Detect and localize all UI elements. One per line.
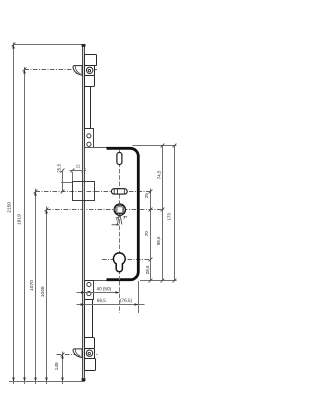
- dimension 66,5 (76,5): [77, 304, 145, 306]
- right extension line bottom: [140, 280, 177, 282]
- lower screw plate: [85, 281, 94, 300]
- dimension 2150 line: [13, 43, 15, 385]
- bottom lock lower box: [85, 359, 96, 371]
- bottom latch wedge: [73, 349, 82, 358]
- faceplate top extension line: [14, 44, 85, 46]
- svg-text:98,5: 98,5: [156, 236, 161, 245]
- centerline main latch: [36, 191, 151, 193]
- svg-text:28,5: 28,5: [145, 265, 150, 274]
- lock case bottom thin edge: [85, 280, 107, 282]
- svg-text:7°: 7°: [123, 215, 128, 220]
- top oval hole: [117, 152, 122, 164]
- bottom lock upper box: [85, 338, 95, 349]
- top lock upper box: [85, 55, 97, 66]
- bottom screw: [86, 350, 92, 356]
- bottom screw box: [85, 349, 95, 359]
- svg-text:70: 70: [144, 231, 149, 237]
- dimension 1070 line: [35, 189, 37, 385]
- centerline bottom latch: [57, 354, 99, 356]
- svg-text:(76,5): (76,5): [120, 298, 132, 303]
- top latch wedge: [73, 66, 82, 76]
- svg-text:11: 11: [76, 163, 81, 168]
- right extension line top: [133, 145, 177, 147]
- upper screw hole 1: [87, 134, 91, 138]
- dimension chain 74,5/98,5: [162, 146, 164, 281]
- svg-text:7: 7: [116, 216, 119, 221]
- svg-text:1070: 1070: [29, 280, 35, 291]
- dimension 25,5 line: [62, 171, 64, 192]
- top screw: [87, 67, 93, 73]
- dimension 1045 line: [46, 207, 48, 385]
- svg-text:25: 25: [144, 193, 149, 199]
- lower drive rail: [85, 300, 93, 338]
- lock case top thin edge: [85, 147, 107, 149]
- case vertical axis: [119, 150, 121, 280]
- dimension 145 line: [62, 352, 64, 385]
- svg-text:40 (50): 40 (50): [97, 286, 112, 291]
- svg-text:1045: 1045: [40, 286, 46, 297]
- lower screw hole 1: [87, 282, 91, 286]
- lock case thick outline: [107, 148, 139, 279]
- dimension 1919 line: [24, 67, 26, 384]
- svg-text:74,5: 74,5: [157, 170, 162, 179]
- top screw box: [85, 66, 95, 76]
- bottom datum line: [9, 381, 85, 383]
- latch slot: [111, 189, 127, 194]
- upper screw plate: [85, 129, 94, 148]
- cylinder axis extension: [119, 281, 121, 313]
- top lock lower box: [85, 76, 95, 87]
- faceplate: [82, 45, 85, 382]
- euro cylinder hole: [113, 253, 125, 272]
- svg-text:2150: 2150: [6, 202, 12, 213]
- centerline follower: [47, 209, 164, 211]
- follower square: [116, 206, 124, 214]
- centerline top latch: [25, 69, 99, 71]
- dimension 60 (50): [77, 292, 120, 294]
- svg-text:145: 145: [54, 362, 60, 370]
- follower circle: [114, 204, 125, 215]
- svg-text:1919: 1919: [17, 214, 23, 225]
- lower screw hole 2: [87, 292, 91, 296]
- latch bolt box: [73, 182, 95, 201]
- svg-text:173: 173: [167, 213, 172, 221]
- 7 degree annotation: [112, 214, 122, 225]
- dimension 11 line: [70, 170, 87, 172]
- svg-text:66,5: 66,5: [97, 298, 106, 303]
- centerline cylinder: [102, 259, 151, 261]
- case right edge extension: [138, 281, 140, 313]
- dimension 173: [174, 146, 176, 281]
- svg-text:25,5: 25,5: [57, 163, 62, 172]
- upper drive rail: [85, 87, 91, 129]
- dimension chain 25/70/28,5: [150, 189, 152, 281]
- upper screw hole 2: [87, 142, 91, 146]
